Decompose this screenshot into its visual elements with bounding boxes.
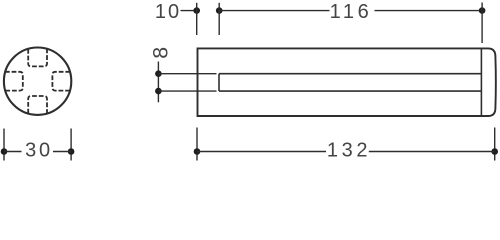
slot left end line: [218, 74, 220, 91]
dimension 116: left extension line: [218, 3, 220, 35]
dimension 132: left dot: [194, 148, 201, 155]
rod end face line: [480, 48, 482, 116]
dimension 116: right line segment: [375, 10, 483, 12]
dimension 132: left line segment: [197, 151, 326, 153]
dimension 10/116: shared dot: [216, 7, 223, 14]
groove bottom (hidden, dashed): [28, 96, 47, 114]
dimension 30: right extension line: [70, 129, 72, 161]
dimension 10: left dot: [193, 7, 200, 14]
dimension 132: right dot: [491, 148, 498, 155]
dimension 30: left extension line: [3, 129, 5, 161]
rod side view outline: [198, 48, 496, 116]
svg-text:8: 8: [149, 47, 173, 59]
dimension 132: right extension line: [494, 128, 496, 161]
dimension 10: left extension line: [196, 3, 198, 35]
dimension 8: top leader line: [158, 73, 216, 75]
dimension 116: left line segment: [219, 10, 329, 12]
dimension 10: leader line: [181, 10, 197, 12]
svg-text:132: 132: [327, 139, 371, 161]
dimension 30: right line segment: [53, 151, 71, 153]
dimension 8: top dot: [155, 70, 162, 77]
dimension 30: left line segment: [4, 151, 22, 153]
dimension 116: right dot: [479, 7, 486, 14]
svg-text:116: 116: [330, 1, 373, 23]
dimension 8: bottom leader line: [158, 90, 216, 92]
dimension 116: right extension line: [481, 3, 483, 44]
svg-text:10: 10: [155, 1, 181, 23]
dimension 8: bottom dot: [155, 88, 162, 95]
groove right (hidden, dashed): [52, 72, 70, 91]
dimension 30: left dot: [1, 148, 8, 155]
dimension 132: right line segment: [369, 151, 495, 153]
svg-text:30: 30: [25, 139, 53, 161]
slot bottom line: [219, 90, 481, 92]
groove top (hidden, dashed): [28, 49, 47, 67]
dimension 132: left extension line: [196, 128, 198, 161]
dimension 30: right dot: [68, 148, 75, 155]
slot top line: [219, 73, 481, 75]
dimension 8: extension line: [157, 62, 159, 103]
groove left (hidden, dashed): [5, 72, 23, 91]
cross-section circle (rod Ø30): [4, 47, 71, 114]
